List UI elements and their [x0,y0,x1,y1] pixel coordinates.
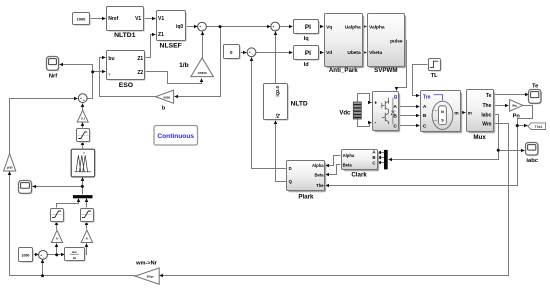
svg-text:PI: PI [305,24,311,31]
svg-text:Beta: Beta [343,162,353,167]
svg-text:Te: Te [486,93,492,99]
svg-text:+: + [272,25,274,29]
svg-text:The: The [483,103,492,109]
svg-text:g: g [394,94,397,100]
svg-text:+: + [199,25,201,29]
svg-text:b: b [162,105,166,111]
svg-text:Z1: Z1 [137,56,143,62]
svg-text:iq0: iq0 [176,24,183,30]
svg-text:bu: bu [108,56,114,62]
svg-text:Δt: Δt [73,256,76,260]
svg-text:30/pi: 30/pi [147,275,154,279]
svg-text:-: - [252,53,253,57]
svg-text:B: B [423,113,427,119]
svg-text:Valpha: Valpha [369,24,385,30]
svg-text:↓: ↓ [109,25,111,30]
svg-text:-: - [43,255,44,259]
svg-text:NLTD1: NLTD1 [114,32,136,39]
svg-text:A: A [393,104,397,110]
svg-text:↓: ↓ [296,29,298,33]
svg-text:-0.1: -0.1 [81,118,86,121]
svg-text:ESO: ESO [119,82,133,89]
svg-text:N: N [441,109,444,114]
svg-text:1/b: 1/b [179,62,189,69]
svg-text:Ubeta: Ubeta [347,50,361,56]
svg-text:Wm: Wm [482,121,492,127]
svg-text:Plark: Plark [298,194,314,201]
svg-text:m: m [468,111,472,116]
svg-text:C: C [423,123,427,129]
svg-text:1000: 1000 [22,254,30,258]
svg-text:Alpha: Alpha [343,153,355,158]
svg-text:+: + [374,101,377,107]
svg-text:5000: 5000 [163,95,170,99]
svg-text:Te: Te [532,83,539,89]
svg-text:-: - [275,27,276,31]
svg-text:y: y [108,72,110,76]
svg-text:A: A [423,104,427,110]
svg-text:SVPWM: SVPWM [374,67,397,74]
svg-text:V1: V1 [158,16,164,22]
svg-text:pi/30: pi/30 [7,167,13,170]
svg-text:C: C [393,124,397,130]
svg-text:pulse: pulse [390,38,403,44]
svg-text:NLTD: NLTD [291,100,308,107]
svg-text:↓: ↓ [158,37,160,41]
svg-text:-K-: -K- [55,238,59,241]
svg-text:Anti_Park: Anti_Park [329,67,358,74]
svg-text:Nrf: Nrf [49,73,57,79]
svg-text:wm->Nr: wm->Nr [135,260,157,266]
svg-text:Δw: Δw [72,250,77,254]
svg-text:Pn: Pn [513,104,517,108]
svg-text:↓: ↓ [296,55,298,59]
svg-text:Nref: Nref [108,16,118,22]
svg-text:iabc: iabc [526,158,538,164]
svg-text:Continuous: Continuous [157,133,194,140]
svg-text:+: + [249,51,251,55]
svg-text:Tm: Tm [423,94,431,100]
svg-text:Beta: Beta [315,173,325,178]
svg-text:-: - [202,27,203,31]
svg-text:-K-: -K- [85,238,89,241]
svg-text:+: + [83,99,85,103]
svg-text:Vq: Vq [326,24,332,30]
svg-text:1/5000: 1/5000 [198,71,208,75]
svg-text:The1: The1 [535,125,543,129]
svg-text:V1: V1 [135,16,141,22]
svg-text:Pn: Pn [513,114,521,120]
svg-text:TL: TL [431,73,438,79]
svg-text:iQ2.0: iQ2.0 [275,85,280,96]
svg-text:Iabc: Iabc [481,112,491,118]
svg-text:Mux: Mux [473,134,486,141]
svg-text:Id: Id [304,62,310,68]
svg-text:B: B [372,155,375,160]
svg-text:Ualpha: Ualpha [345,24,361,30]
svg-text:Vbeta: Vbeta [369,50,382,56]
svg-text:Alpha: Alpha [312,163,324,168]
svg-text:PI: PI [305,50,311,57]
svg-text:iQ: iQ [275,113,280,118]
svg-text:Vd: Vd [326,50,332,56]
svg-text:Vdc: Vdc [339,110,351,116]
svg-text:Z2: Z2 [137,70,143,76]
svg-text:The: The [316,183,324,188]
svg-text:Clark: Clark [351,171,367,178]
svg-text:S: S [441,118,444,123]
svg-text:NLSEF: NLSEF [160,42,182,49]
svg-text:1000: 1000 [77,17,86,22]
svg-text:m: m [454,112,458,117]
svg-text:+: + [40,253,42,257]
svg-text:Iq: Iq [304,36,310,42]
svg-text:D: D [289,166,292,171]
